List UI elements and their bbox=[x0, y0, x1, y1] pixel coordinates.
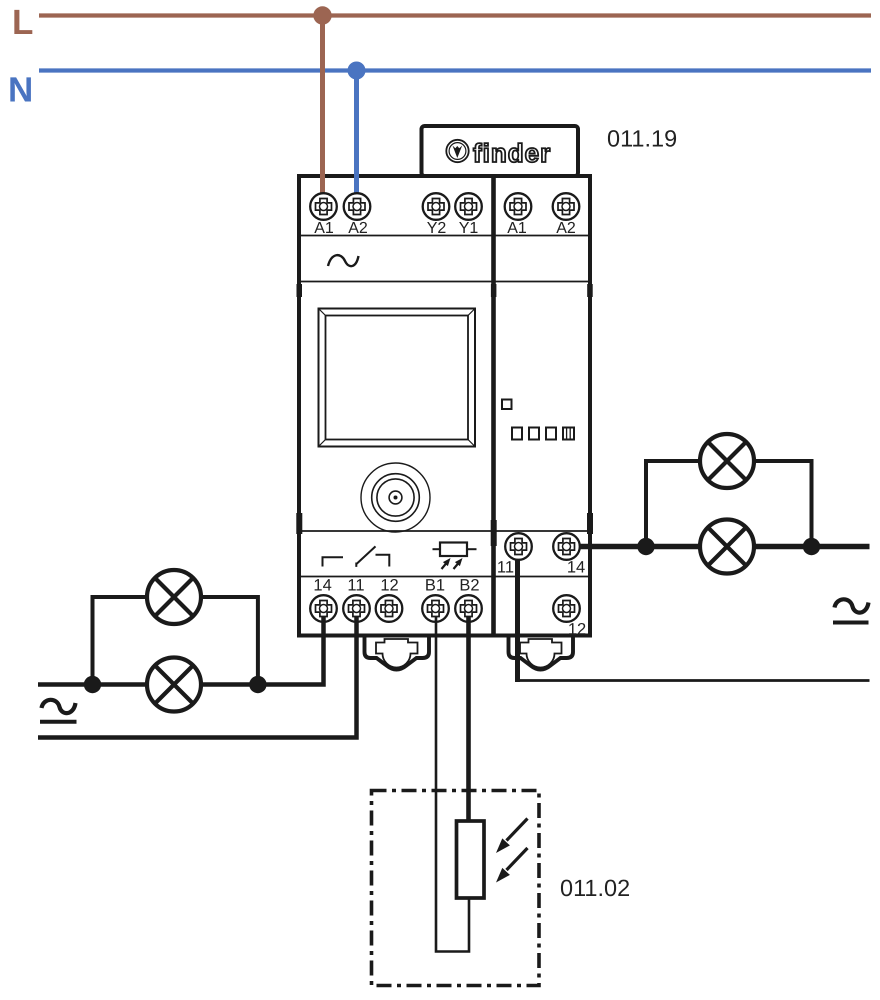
terminal A2 left (pin A2) bbox=[344, 193, 371, 220]
svg-text:11: 11 bbox=[347, 577, 364, 595]
LDR symbol arrow 2 bbox=[454, 558, 463, 569]
sensor enclosure 011.02 (dash-dot box) bbox=[372, 791, 540, 986]
junction N to A2 bbox=[348, 62, 366, 80]
device separator above contact-symbol section bbox=[300, 530, 589, 532]
photocell light arrow 1 bbox=[496, 819, 528, 854]
svg-text:14: 14 bbox=[313, 577, 331, 595]
terminal B1 bbox=[422, 595, 449, 622]
wire L phase line bbox=[39, 13, 871, 17]
LDR symbol on device bbox=[433, 543, 477, 557]
finder logo emblem bbox=[446, 140, 468, 162]
AC supply sine symbol on device bbox=[328, 255, 359, 266]
svg-text:Y2: Y2 bbox=[427, 220, 447, 237]
wire left lamp line to AC source bbox=[38, 682, 147, 687]
terminal Y2 (pin Y2) bbox=[423, 193, 450, 220]
DIP indicator square 2 bbox=[529, 428, 539, 440]
AC source symbol right bbox=[833, 599, 869, 622]
device separator under AC section bbox=[300, 281, 589, 283]
lamp E1 bbox=[147, 570, 201, 624]
relay contact blade pin 11 bbox=[356, 546, 375, 567]
wire left parallel branch bbox=[93, 597, 258, 685]
device molding notch left at section 2 bbox=[297, 284, 303, 297]
lamp E3 bbox=[700, 434, 754, 488]
terminal B2 bbox=[455, 595, 482, 622]
wire right AC source return line bbox=[516, 679, 870, 682]
terminal 12 bottom bbox=[376, 595, 403, 622]
DIP indicator square 4 bbox=[563, 428, 574, 440]
device separator under top terminals bbox=[300, 235, 589, 237]
junction right branch right bbox=[803, 538, 820, 555]
terminal A1 right (pin A1) bbox=[505, 193, 532, 220]
terminal Y1 (pin Y1) bbox=[455, 193, 482, 220]
wire from terminal 14 to left lamp group bbox=[201, 617, 324, 685]
device molding notch right at section 4 bbox=[587, 513, 593, 534]
relay contact symbol pin 14 bbox=[323, 557, 344, 566]
terminal 12 right module bbox=[553, 595, 580, 622]
wire from right terminal 11 down through clip bbox=[515, 560, 520, 682]
wire from terminal B1 to photocell bbox=[436, 617, 469, 952]
DIP indicator square 1 bbox=[512, 428, 522, 440]
LDR symbol arrow 1 bbox=[442, 558, 451, 569]
AC source symbol left bbox=[40, 700, 77, 722]
svg-text:N: N bbox=[8, 71, 33, 110]
junction left branch left bbox=[84, 676, 101, 693]
terminal A1 left (pin A1) bbox=[310, 193, 337, 220]
finder logo plate bbox=[422, 126, 579, 176]
svg-text:12: 12 bbox=[380, 577, 398, 595]
terminal 11 right module bbox=[505, 533, 532, 560]
wire L drop to terminal A1 bbox=[320, 16, 325, 197]
svg-text:Y1: Y1 bbox=[459, 220, 479, 237]
wire N drop to terminal A2 bbox=[354, 71, 359, 197]
photocell light arrow 2 bbox=[496, 848, 528, 883]
svg-text:14: 14 bbox=[567, 559, 585, 577]
lamp E4 bbox=[700, 520, 754, 574]
photoresistor R1 body bbox=[457, 821, 485, 898]
svg-text:L: L bbox=[12, 3, 33, 42]
rotary knob bbox=[361, 463, 430, 532]
terminal A2 right (pin A2) bbox=[553, 193, 580, 220]
wire from terminal 11 to AC source return bbox=[38, 617, 357, 738]
DIP indicator square 3 bbox=[546, 428, 556, 440]
device molding notch divider at section 4 bbox=[491, 520, 497, 546]
device molding notch left at section 4 bbox=[296, 513, 302, 534]
svg-text:12: 12 bbox=[568, 621, 586, 639]
wire N neutral line bbox=[39, 68, 871, 72]
wire right lamp line to AC source bbox=[754, 544, 870, 550]
svg-text:011.19: 011.19 bbox=[607, 126, 677, 152]
indicator square on right module bbox=[502, 400, 512, 410]
terminal 14 bottom bbox=[310, 595, 337, 622]
display LCD bezel bbox=[319, 309, 476, 447]
svg-text:A1: A1 bbox=[507, 220, 527, 237]
terminal 14 right module bbox=[553, 533, 580, 560]
svg-text:B2: B2 bbox=[459, 577, 479, 595]
device module divider bbox=[491, 176, 496, 636]
relay contact symbol pin 12 bbox=[376, 555, 390, 567]
device molding notch right at section 2 bbox=[587, 284, 593, 297]
lamp E2 bbox=[147, 658, 201, 712]
device molding notch divider at section 2 bbox=[491, 284, 497, 297]
wire from right terminal 14 to right lamp group bbox=[580, 544, 701, 550]
DIN rail clip left module bbox=[365, 638, 430, 670]
junction left branch right bbox=[249, 676, 266, 693]
svg-text:A2: A2 bbox=[556, 220, 576, 237]
svg-text:011.02: 011.02 bbox=[560, 875, 630, 901]
terminal 11 bottom bbox=[343, 595, 370, 622]
svg-text:B1: B1 bbox=[425, 577, 445, 595]
svg-text:finder: finder bbox=[473, 138, 551, 168]
svg-text:A2: A2 bbox=[348, 220, 368, 237]
device U1 outline (011.19 twilight switch) bbox=[299, 176, 590, 636]
DIN rail clip right module bbox=[509, 638, 574, 670]
junction L to A1 bbox=[313, 6, 331, 24]
svg-text:A1: A1 bbox=[314, 220, 334, 237]
wire from terminal B2 to photocell bbox=[466, 617, 471, 823]
svg-text:11: 11 bbox=[497, 559, 514, 577]
junction right branch left bbox=[637, 538, 654, 555]
device separator above bottom terminals bbox=[300, 576, 589, 578]
wire right parallel branch bbox=[646, 461, 812, 547]
